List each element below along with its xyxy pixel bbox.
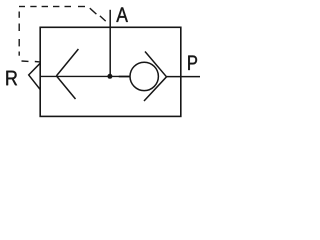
check valve ball (circle) (130, 62, 158, 90)
port R label (6, 71, 17, 85)
port P label (188, 56, 197, 70)
pilot line dash (top horizontal run) (19, 6, 85, 8)
check valve seat at P (144, 52, 167, 102)
exhaust flow arrowhead (points left toward R) (56, 49, 78, 99)
port A label (116, 7, 128, 21)
port A line (109, 10, 111, 77)
R port seat (movable element) (29, 63, 41, 89)
wire stub into check valve (119, 76, 130, 78)
pilot line dash (diagonal run to port A line) (90, 8, 106, 21)
valve body box (40, 27, 181, 116)
main flow line A-junction to check valve (40, 75, 119, 77)
pilot line dash (bottom run to R seat) (22, 60, 40, 63)
pilot line dash (left vertical run) (18, 12, 20, 56)
port P line (167, 76, 201, 78)
junction node (107, 74, 112, 79)
